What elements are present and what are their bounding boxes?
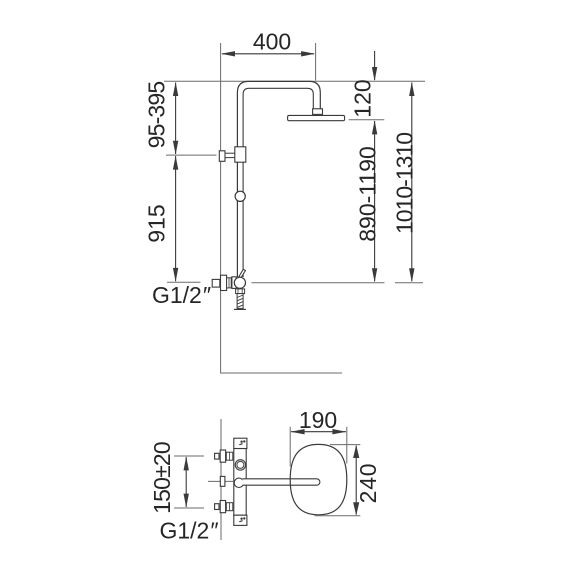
wall bracket pipe collar bbox=[235, 147, 246, 162]
valve body bbox=[232, 277, 236, 289]
dim 150 line bbox=[184, 456, 189, 507]
dim 95-395 line bbox=[173, 82, 178, 155]
svg-text:400: 400 bbox=[253, 29, 291, 55]
thermostat knob outer circle bbox=[235, 460, 245, 470]
mixer bottom port square bbox=[234, 515, 247, 525]
svg-text:890-1190: 890-1190 bbox=[355, 146, 381, 242]
lower wall connection nut bbox=[226, 503, 233, 511]
wall bracket flange bbox=[219, 151, 225, 162]
dim 1010-1310 line bbox=[409, 82, 414, 282]
wall bracket stub bbox=[225, 153, 235, 157]
dim 190 extension ticks bbox=[290, 427, 347, 467]
hose threaded column bbox=[237, 294, 243, 309]
dim 915 line bbox=[173, 156, 178, 282]
dim 150 top tick bbox=[174, 455, 204, 457]
svg-text:915: 915 bbox=[144, 204, 170, 242]
upper wall connection square bbox=[215, 453, 219, 459]
shower pipe outer outline bbox=[237, 81, 320, 277]
hose nut bbox=[236, 289, 245, 294]
shower pipe inner outline bbox=[243, 88, 313, 277]
dim 890-1190 line bbox=[372, 120, 377, 282]
svg-text:G1/2″: G1/2″ bbox=[152, 282, 211, 308]
dim 400 line bbox=[221, 51, 315, 56]
valve nut bbox=[227, 278, 232, 288]
arm joint circle bbox=[234, 478, 243, 487]
dim 120 bottom tick bbox=[349, 119, 385, 121]
dim 120 upper arrow bbox=[372, 51, 377, 81]
shower head disc side view bbox=[288, 115, 345, 120]
center stub line bbox=[208, 480, 234, 482]
shower head collar bbox=[313, 109, 323, 115]
svg-text:95-395: 95-395 bbox=[144, 82, 170, 149]
center stub flange bbox=[220, 476, 225, 486]
shower arm bottom view bbox=[242, 479, 320, 485]
lower wall connection square bbox=[215, 504, 219, 510]
bottom reference line segment 2 bbox=[395, 282, 423, 284]
dim 240 extension lines bbox=[315, 445, 361, 516]
bottom reference line segment 1 bbox=[252, 282, 385, 284]
valve wall square bbox=[212, 279, 220, 287]
valve ball circle bbox=[234, 277, 245, 288]
svg-text:150±20: 150±20 bbox=[149, 442, 175, 514]
dim 915 bottom tick bbox=[167, 281, 201, 283]
mixer body bbox=[234, 449, 246, 516]
svg-text:190: 190 bbox=[299, 407, 337, 433]
slider ring bbox=[235, 191, 245, 201]
thermostat knob inner circle bbox=[237, 461, 244, 468]
valve flange bbox=[221, 275, 227, 290]
shower head top view squircle bbox=[290, 444, 347, 514]
upper wall connection nut bbox=[226, 452, 233, 460]
dim 150 bottom tick bbox=[174, 507, 204, 509]
dim 190 line bbox=[291, 429, 347, 434]
lower wall connection flange bbox=[220, 501, 225, 513]
valve handle lever bbox=[239, 269, 246, 278]
dim 400 extension line right bbox=[315, 43, 317, 81]
svg-text:1010-1310: 1010-1310 bbox=[392, 133, 418, 234]
dim 95-395 tick bbox=[166, 154, 217, 156]
mixer top port square bbox=[234, 438, 247, 448]
hose bottom flare bbox=[234, 308, 246, 310]
wall mounting line bbox=[221, 43, 342, 373]
bottom view wall line bbox=[220, 419, 222, 540]
svg-text:120: 120 bbox=[350, 79, 376, 117]
dim 240 line bbox=[353, 445, 359, 516]
top reference line bbox=[164, 80, 425, 82]
svg-text:G1/2″: G1/2″ bbox=[159, 518, 218, 544]
upper wall connection flange bbox=[220, 450, 225, 462]
svg-text:240: 240 bbox=[355, 463, 381, 504]
